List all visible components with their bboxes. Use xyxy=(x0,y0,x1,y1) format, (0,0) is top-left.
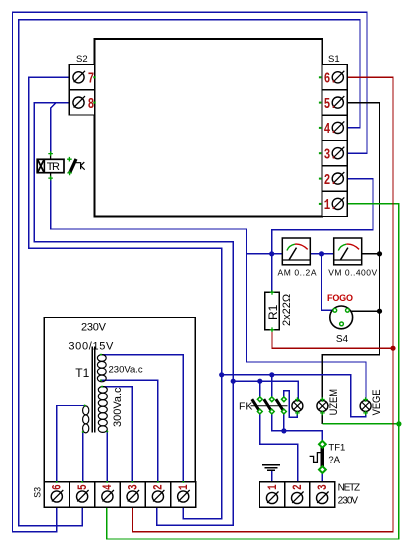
wire junction to FOGO left pin xyxy=(322,254,333,310)
svg-text:300Va.c: 300Va.c xyxy=(112,387,124,427)
wire S1.2 down to junction and R1 top xyxy=(272,179,373,293)
wire FOGO right pin to S1.5 net xyxy=(349,310,379,312)
svg-text:TF1: TF1 xyxy=(328,443,345,454)
resistor R1 xyxy=(265,290,293,332)
coil 230Vac secondary xyxy=(97,355,106,382)
pin dot T1 230Vac top xyxy=(100,354,102,356)
wire FK pole3 bottom to junction xyxy=(283,412,285,431)
lamp VEGE xyxy=(360,389,383,415)
wire S2.7 to S3.1 (left loop down to bottom) xyxy=(29,77,222,518)
wire green UZEM bottom to green vertical xyxy=(322,423,399,425)
junction node FK pole1 top tap xyxy=(257,379,262,384)
coil primary xyxy=(83,406,89,433)
wire R1 bottom to red net xyxy=(272,330,393,349)
svg-text:?A: ?A xyxy=(328,455,340,466)
svg-text:8: 8 xyxy=(88,95,95,112)
wire 300Vac top to S3.3 xyxy=(102,387,132,482)
junction node FOGO right pin on S1.5 net xyxy=(377,309,382,314)
svg-text:6: 6 xyxy=(52,484,66,490)
ground xyxy=(262,465,280,482)
wire FK pole1 bottom to NETZ.2 xyxy=(260,412,298,482)
svg-text:6.: 6. xyxy=(324,70,337,87)
lamp FK indicator xyxy=(292,397,303,415)
svg-text:AM 0..2A: AM 0..2A xyxy=(278,268,317,278)
connector S1 xyxy=(319,54,347,217)
svg-text:T1: T1 xyxy=(75,366,89,380)
svg-text:3: 3 xyxy=(317,484,331,490)
junction node AM-VM link to FOGO feed xyxy=(319,251,324,256)
junction node at AM feed / S1.2 / R1 top xyxy=(269,251,274,256)
terminal block NETZ xyxy=(260,482,361,507)
wire VM right to S1.5 net xyxy=(361,253,379,255)
wire S2.8 branch to TR coil top xyxy=(51,103,56,154)
wire S1.3 to S3.6 outer blue loop xyxy=(13,12,368,531)
svg-text:3.: 3. xyxy=(324,146,337,163)
wire net B: dot3 to FK lamp top xyxy=(233,381,298,400)
svg-text:TR: TR xyxy=(47,161,60,173)
junction node FK pole2/3 bottoms to TF1 xyxy=(281,428,286,433)
transformer T1 box xyxy=(44,318,195,482)
transformer core xyxy=(91,347,93,433)
wire FK pole3 top to FK lamp bottom xyxy=(284,391,298,418)
wire 300Vac bottom to S3.4 xyxy=(106,431,108,482)
wire red net S1.6 to S3.3 xyxy=(133,77,394,532)
wire S1.5 black net down to UZEM top xyxy=(322,103,379,400)
wire AM feed horizontal xyxy=(247,253,283,255)
junction node S2.7 net to FK feed xyxy=(219,372,224,377)
junction node S2.8 net to FK lamp feed xyxy=(231,379,236,384)
svg-text:S4: S4 xyxy=(336,334,349,345)
wire junction to TF1 top xyxy=(284,431,323,441)
svg-text:1: 1 xyxy=(178,484,192,490)
lamp UZEM xyxy=(317,389,341,415)
wire primary top to S3.6 xyxy=(57,406,85,482)
voltmeter VM xyxy=(328,238,377,278)
svg-text:S2: S2 xyxy=(76,54,88,65)
svg-text:S3: S3 xyxy=(32,487,42,498)
wire dot2 to FK pole2 top xyxy=(271,375,273,399)
junction node R1 bottom on S1.6 red net xyxy=(390,346,395,351)
junction node FK pole2 top tap xyxy=(269,372,274,377)
coil 300Vac secondary xyxy=(98,387,107,433)
big box xyxy=(95,39,323,217)
svg-text:VM 0..400V: VM 0..400V xyxy=(328,268,377,278)
wire FK lamp bottom loop vertical VEGE xyxy=(365,399,367,401)
svg-text:VEGE: VEGE xyxy=(372,389,384,415)
junction node UZEM bottom on S1.1 green net xyxy=(396,421,401,426)
svg-text:NETZ: NETZ xyxy=(338,483,361,494)
connector FOGO S4 xyxy=(327,293,353,345)
svg-text:3: 3 xyxy=(127,484,141,490)
ammeter AM xyxy=(278,238,317,278)
svg-text:4: 4 xyxy=(102,484,116,490)
wire green net S1.1 to S3.4 xyxy=(107,204,399,539)
wire S2.8 to S3.2 xyxy=(34,103,233,526)
svg-text:R1: R1 xyxy=(266,304,280,320)
wire dot4 to FK pole1 top xyxy=(259,381,261,399)
svg-text:1: 1 xyxy=(267,484,281,490)
wire AM to VM link xyxy=(310,253,333,255)
svg-text:230V: 230V xyxy=(338,495,359,506)
contact K xyxy=(67,157,85,175)
wire TR coil bottom to VEGE lamp top xyxy=(51,178,366,400)
svg-text:UŽEM: UŽEM xyxy=(326,389,340,415)
wire FK pole2 bottom to junction xyxy=(272,412,284,431)
svg-text:5: 5 xyxy=(77,484,91,490)
wire net A: dot1 to VEGE bottom xyxy=(222,375,366,417)
relay coil TR xyxy=(37,151,64,180)
pin dots S3 top xyxy=(56,481,58,483)
svg-text:2.: 2. xyxy=(324,171,337,188)
wire UZEM bottom down xyxy=(321,412,323,424)
svg-text:300/15V: 300/15V xyxy=(68,341,114,353)
wire 230Vac top to S3.1 xyxy=(101,355,183,482)
connector S2 xyxy=(69,54,96,115)
svg-text:230V: 230V xyxy=(81,321,107,333)
svg-text:FOGO: FOGO xyxy=(327,293,353,303)
svg-text:2: 2 xyxy=(153,484,167,490)
svg-text:FK: FK xyxy=(239,401,252,413)
svg-text:2: 2 xyxy=(292,484,306,490)
svg-text:1.: 1. xyxy=(324,196,337,213)
svg-text:230Va.c: 230Va.c xyxy=(109,365,143,376)
wire primary bottom to S3.5 xyxy=(82,432,84,482)
svg-text:4.: 4. xyxy=(324,120,337,137)
wire S1.4 to S3.5 second blue loop xyxy=(19,20,360,526)
junction node VM right on S1.5 net xyxy=(377,251,382,256)
svg-text:5.: 5. xyxy=(324,95,337,112)
connector S3 xyxy=(32,482,196,507)
fuse TF1 xyxy=(310,441,346,473)
wire TF1 bottom to NETZ.3 xyxy=(321,473,323,482)
svg-text:2x22Ω: 2x22Ω xyxy=(281,294,293,326)
svg-text:7: 7 xyxy=(88,70,94,87)
svg-text:S1: S1 xyxy=(328,54,340,65)
switch FK xyxy=(239,397,288,414)
wire 230Vac bottom to S3.2 xyxy=(101,380,158,482)
